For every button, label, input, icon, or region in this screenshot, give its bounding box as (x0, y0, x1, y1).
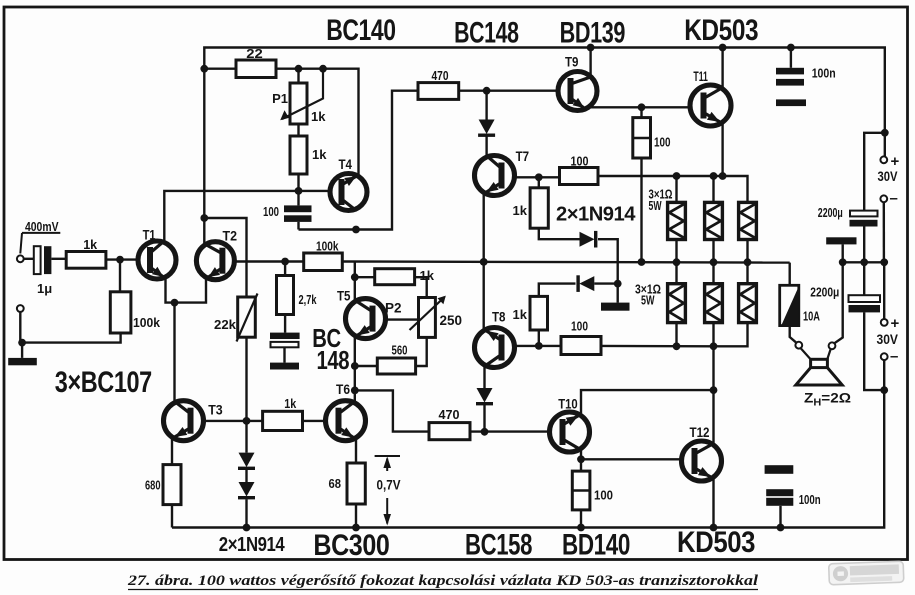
junction 100n on top rail (787, 44, 795, 52)
wire T7 emitter to mid rail (483, 194, 485, 262)
wire 100 to bottom rail (580, 510, 582, 528)
svg-text:22: 22 (246, 46, 262, 61)
transistor T12 (682, 441, 722, 481)
svg-text:T10: T10 (558, 397, 578, 412)
wire to 560 (355, 365, 378, 367)
watermark logo (829, 561, 904, 585)
resistor 470 bottom (429, 423, 470, 440)
wire 68 to bottom rail (355, 504, 357, 528)
wire T10 collector to T12 collector (581, 390, 714, 416)
wire D1 to center node (598, 239, 618, 283)
ground bar below diodes (617, 284, 619, 303)
junction T10 emitter (577, 455, 585, 463)
wire T5 emitter to 560 node (354, 336, 356, 366)
capacitor electrolytic (T5 base) (284, 315, 286, 333)
svg-text:100n: 100n (812, 67, 836, 81)
junction T7 emitter / T8 collector (480, 258, 488, 266)
svg-text:2200μ: 2200μ (810, 285, 839, 300)
wire 560 to P2 bottom (416, 337, 427, 366)
power resistor bank lower 3x1ohm 5W (675, 262, 677, 284)
resistor 22k (with diagonal) (238, 297, 256, 337)
svg-text:1μ: 1μ (37, 281, 52, 296)
P1 wiper arrow (282, 69, 323, 119)
wire T4 emitter row to 470 feed (299, 91, 419, 230)
diode below T8 (477, 388, 493, 403)
junction diode center node (614, 280, 622, 288)
wire T8 collector to mid rail (483, 262, 485, 332)
wire 100n stub (790, 48, 792, 68)
svg-text:1k: 1k (513, 307, 528, 322)
resistor 100 (T8 base) (561, 337, 601, 355)
wire - terminal to mid rail (883, 202, 886, 262)
wire T5 emitter to T6 collector node (354, 366, 356, 390)
junction bank bottom b (710, 342, 718, 350)
svg-text:100: 100 (571, 154, 589, 169)
junction T4 emitter (352, 226, 360, 234)
svg-text:100: 100 (263, 204, 279, 219)
wire 100 to bank bottom row (601, 345, 714, 348)
wire mid rail to + terminal lower (883, 262, 885, 319)
svg-text:22k: 22k (214, 317, 237, 332)
terminal -30V lower (881, 353, 888, 360)
junction T12 collector (710, 386, 718, 394)
wire T11 collector (721, 48, 723, 90)
terminal input ground (17, 305, 24, 312)
svg-text:680: 680 (145, 478, 161, 493)
terminal speaker left (795, 342, 802, 349)
svg-text:2×1N914: 2×1N914 (556, 203, 636, 226)
resistor 68 (347, 463, 365, 504)
svg-text:BC300: BC300 (313, 529, 389, 562)
svg-text:KD503: KD503 (684, 14, 758, 47)
junction P1 wiper (319, 65, 327, 73)
junction diode feed T7 (483, 87, 491, 95)
svg-text:100: 100 (594, 488, 613, 503)
wire T5 collector (354, 277, 356, 302)
wire bank lower bottoms (675, 323, 677, 347)
svg-text:T5: T5 (337, 289, 351, 304)
wire diode stub (485, 91, 487, 120)
capacitor 2200u lower (863, 262, 865, 295)
resistor 470 top (418, 83, 459, 100)
svg-text:68: 68 (329, 476, 342, 491)
wire T7 base row (515, 176, 560, 178)
fuse bottom wire (790, 326, 797, 343)
resistor 100 vertical top (633, 118, 651, 158)
svg-text:5W: 5W (649, 199, 662, 213)
terminal speaker right (829, 342, 836, 349)
svg-text:5W: 5W (641, 294, 655, 308)
svg-text:27. ábra. 100 wattos végerősít: 27. ábra. 100 wattos végerősítő fokozat … (127, 573, 759, 589)
resistor 2.7k (284, 262, 286, 276)
wire T12 collector (712, 390, 714, 445)
junction 100 resistor top (638, 103, 646, 111)
wire bank upper bottoms to mid rail (675, 240, 677, 263)
wire 100 top stub (640, 107, 642, 117)
capacitor 100n bottom (765, 465, 794, 474)
svg-text:1k: 1k (513, 203, 528, 218)
transistor T9 (558, 72, 597, 111)
wire 470 to T10 base (470, 430, 550, 432)
fuse 10A (780, 285, 799, 325)
junction T12 emitter bottom (710, 524, 718, 532)
capacitor 100 (T4 base) (297, 191, 299, 206)
transistor T7 (475, 156, 515, 196)
transistor T8 (475, 328, 515, 368)
svg-text:T11: T11 (693, 69, 708, 84)
svg-text:3×BC107: 3×BC107 (55, 366, 152, 399)
resistor 100 (T7 base) (560, 168, 599, 185)
wire T5 base to P2 wiper (386, 318, 420, 320)
terminal -30V upper (880, 195, 887, 202)
svg-text:148: 148 (317, 345, 350, 375)
junction 2.7k top (281, 258, 289, 266)
svg-text:2200μ: 2200μ (818, 205, 843, 220)
svg-text:1k: 1k (312, 147, 327, 162)
junction T11 collector on top rail (719, 44, 727, 52)
wire 1k to P2 top (415, 277, 427, 297)
svg-text:–: – (890, 190, 898, 207)
wire 100k bottom to input ground (22, 333, 121, 343)
svg-text:100: 100 (571, 319, 588, 334)
transistor T4 (330, 174, 367, 211)
svg-text:T6: T6 (336, 382, 350, 397)
transistor T6 (326, 401, 366, 441)
wire T8 base row (515, 345, 562, 347)
junction -30V column right (880, 386, 888, 394)
wire T6 collector stub (354, 390, 356, 404)
svg-text:1k: 1k (311, 109, 326, 124)
junction top-left x204 y68.7 (200, 65, 208, 73)
junction 100 bottom (577, 524, 585, 532)
resistor 1k T7 (538, 177, 540, 188)
transistor T1 (138, 241, 176, 279)
resistor 100k vertical (119, 260, 121, 292)
wire T8 emitter to diode (483, 364, 485, 388)
wire T1/T2 emitters (166, 278, 207, 303)
svg-text:BD140: BD140 (562, 529, 630, 562)
terminal input (17, 255, 24, 262)
diode D1 1N914 (580, 232, 595, 247)
resistor 1k below P1 (290, 136, 307, 174)
svg-text:470: 470 (432, 68, 449, 83)
junction emitters to T3 (171, 299, 179, 307)
potentiometer P1 1k (290, 83, 307, 124)
junction ground stub (839, 258, 847, 266)
wire T11 emitter (721, 123, 723, 177)
svg-text:P2: P2 (385, 301, 402, 316)
resistor 1k (T5) (375, 269, 415, 285)
svg-text:1k: 1k (83, 237, 98, 252)
wire bank stubs top row (675, 176, 677, 202)
transistor T5 (346, 299, 386, 339)
resistor 1k input (66, 252, 106, 269)
ground bar below electrolytic (283, 348, 285, 363)
wire T6 emitter to 68 (355, 439, 357, 464)
junction Ra/Rd column (673, 258, 681, 266)
wire diode chain to bottom rail (245, 499, 247, 527)
capacitor 100n top (776, 68, 804, 75)
wire T2 collector node to 22k (204, 218, 246, 297)
wire 1k to T1 base (106, 258, 138, 260)
svg-text:100k: 100k (133, 315, 161, 330)
junction P1 top (295, 65, 303, 73)
junction T6 collector node (351, 387, 359, 395)
wire T6 collector node to 470 bottom (355, 390, 429, 431)
wire speaker right feed (834, 262, 842, 343)
wire bank mid to T12 collector column (712, 346, 714, 390)
wire T3 base (204, 420, 247, 422)
wire mid rail to T5 node (354, 262, 356, 278)
junction 2200u column (860, 258, 868, 266)
terminal +30V lower (881, 319, 888, 326)
svg-text:470: 470 (439, 407, 460, 422)
wire T12 emitter to bottom rail (712, 477, 714, 528)
junction T8 base 1k (535, 342, 543, 350)
junction T8 emitter diode (481, 428, 489, 436)
wire 1k to diode D1 (539, 228, 580, 239)
svg-text:250: 250 (440, 313, 463, 328)
wire to 1k T5 (355, 276, 375, 278)
junction T9 collector on top rail (587, 44, 595, 52)
wire +30V top rail (204, 48, 885, 219)
svg-text:T2: T2 (223, 229, 238, 244)
junction bank top a (673, 172, 681, 180)
junction 100 vertical bottom (638, 258, 646, 266)
junction input ground (18, 339, 26, 347)
svg-text:2,7k: 2,7k (299, 292, 318, 307)
transistor T2 (196, 242, 234, 280)
resistor 1k T8 (530, 296, 548, 330)
wire mid rail left part (T2 base) (234, 260, 303, 262)
resistor 100 (T10 emitter) (580, 459, 582, 471)
wire to + terminal (884, 133, 886, 156)
junction T2 collector node (200, 214, 208, 222)
svg-text:100: 100 (654, 135, 671, 150)
junction bank top b (710, 172, 718, 180)
annotation 0.7V (375, 455, 400, 457)
wire P1 top stub (297, 69, 299, 83)
wire T10 emitter to T12 base (581, 458, 682, 460)
resistor 560 (377, 358, 415, 374)
junction diode chain bottom (243, 524, 251, 532)
junction 1k T7 (535, 173, 543, 181)
wire 22k to T3 base node (245, 337, 247, 452)
junction right rail to +30V (881, 129, 889, 137)
svg-text:T4: T4 (339, 157, 353, 172)
svg-text:1k: 1k (284, 396, 297, 411)
svg-text:KD503: KD503 (677, 526, 755, 559)
junction 68 bottom (352, 524, 360, 532)
junction bank bottom a (673, 342, 681, 350)
diode above T7 (479, 120, 495, 135)
resistor 1k (T6 base) (247, 420, 263, 422)
wire 100 to resistor bank row (598, 176, 748, 202)
junction T3 base node (243, 417, 251, 425)
wire emitters to T3 collector (173, 303, 175, 403)
svg-text:T9: T9 (565, 55, 579, 70)
resistor 22 (236, 60, 276, 78)
wire mid rail main (342, 262, 789, 263)
transistor T10 (550, 412, 590, 452)
svg-text:100n: 100n (799, 493, 821, 507)
ground bar input (21, 343, 23, 358)
diode chain D4 (245, 470, 247, 482)
svg-text:T7: T7 (516, 149, 530, 164)
diode chain D3 (239, 453, 255, 468)
terminal +30V upper (880, 156, 887, 163)
potentiometer P2 250 (419, 298, 436, 338)
svg-text:2×1N914: 2×1N914 (219, 534, 286, 556)
junction T11 emitter (719, 172, 727, 180)
wire - lower to -30V rail (883, 360, 885, 390)
svg-text:BC158: BC158 (465, 529, 532, 562)
svg-text:30V: 30V (877, 332, 899, 347)
wire T9 emitter to T11 base (587, 106, 691, 108)
wire P1 to 1k (297, 124, 299, 136)
ground bar above right rail (826, 237, 856, 244)
wire T2 collector (203, 218, 205, 245)
svg-text:10A: 10A (803, 309, 820, 324)
svg-text:BC140: BC140 (326, 14, 396, 47)
svg-text:T12: T12 (690, 425, 710, 440)
junction 560 node (351, 362, 359, 370)
wire D2 to 1k T8 (539, 284, 576, 297)
wire T3 emitter to 680 (171, 439, 173, 465)
wire 100 bottom to mid rail (640, 158, 642, 262)
svg-text:0,7V: 0,7V (377, 478, 401, 493)
junction T5 collector node (351, 273, 359, 281)
wire T9 collector (589, 48, 591, 77)
junction node A (295, 187, 303, 195)
speaker (801, 348, 811, 359)
wire +30V jog to 2200u (864, 133, 885, 210)
junction 100k top (116, 256, 124, 264)
wire bottom rail (172, 390, 884, 527)
wire 1k to node A (297, 174, 299, 191)
transistor T11 (690, 85, 731, 126)
svg-text:T8: T8 (492, 310, 506, 325)
wire 470 to T9 base (459, 89, 559, 91)
junction Rb/Re column (710, 258, 718, 266)
svg-text:+: + (891, 153, 900, 170)
transistor T3 (164, 401, 204, 441)
svg-text:100k: 100k (316, 239, 339, 254)
svg-text:–: – (890, 348, 898, 365)
wire right rail segment (843, 261, 885, 263)
svg-text:P1: P1 (272, 91, 288, 106)
wire T10 emitter node (580, 448, 582, 459)
wire 680 to bottom rail corner (171, 505, 173, 528)
capacitor 1u (34, 246, 41, 274)
svg-text:T1: T1 (143, 228, 156, 243)
diode D2 1N914 (594, 282, 617, 284)
svg-text:+: + (891, 315, 900, 332)
svg-text:560: 560 (392, 343, 408, 358)
capacitor 2200u upper (850, 211, 878, 217)
junction Rc/Rf column (744, 258, 752, 266)
svg-text:30V: 30V (878, 169, 898, 184)
junction right rail x884 (880, 258, 888, 266)
wire y69 row (204, 67, 236, 69)
resistor 680 (163, 465, 181, 505)
junction 100n bottom (777, 524, 785, 532)
resistor 100k horizontal (304, 253, 343, 271)
wire T1 collector to T4 base (164, 191, 330, 242)
svg-text:T3: T3 (208, 403, 223, 418)
fuse top wire (789, 263, 791, 286)
wire 22 to T4 collector column (276, 69, 359, 176)
svg-text:BC148: BC148 (454, 17, 518, 50)
